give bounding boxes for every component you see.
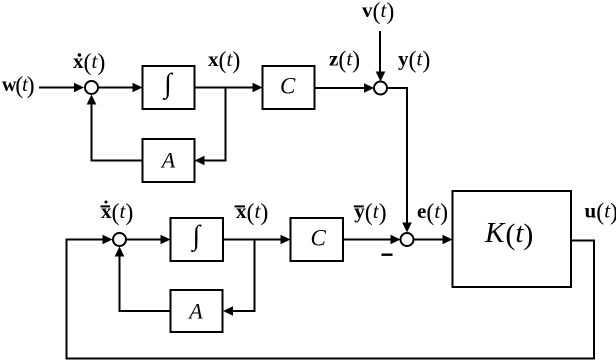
- letter A bottom: [187, 299, 203, 324]
- svg-text:v(t): v(t): [362, 0, 394, 25]
- wire summing junction 3 to integrator bottom: [126, 235, 171, 245]
- integral symbol top: [162, 69, 174, 101]
- minus sign at summing junction 4: [382, 254, 393, 256]
- wire C bottom to summing junction 4: [343, 235, 401, 245]
- C block top: [263, 66, 315, 109]
- summing junction 1: [85, 81, 98, 94]
- integrator block top: [143, 66, 195, 109]
- label xbar(t): [235, 199, 269, 226]
- svg-text:C: C: [280, 74, 296, 99]
- label K(t): [484, 217, 533, 251]
- svg-text:A: A: [187, 299, 203, 324]
- label x(t): [208, 47, 240, 74]
- wire summing junction 2 to summing junction 4 (y(t) path): [387, 88, 412, 233]
- letter C bottom: [311, 226, 327, 251]
- label u(t): [585, 199, 616, 226]
- svg-text:K(t): K(t): [484, 217, 533, 251]
- svg-text:u(t): u(t): [585, 199, 616, 226]
- integrator block bottom: [171, 218, 224, 261]
- letter A top: [160, 148, 176, 173]
- wire branch xbar(t) down to A bottom: [223, 240, 255, 316]
- svg-text:x(t): x(t): [73, 49, 105, 76]
- C block bottom: [291, 218, 344, 261]
- summing junction 2: [374, 82, 387, 95]
- wire summing junction 4 to K(t): [414, 235, 453, 245]
- label v(t): [362, 0, 394, 25]
- wire integrator bottom to C bottom: [223, 235, 291, 245]
- A block top: [143, 139, 195, 182]
- label y(t): [398, 47, 430, 74]
- label e(t): [417, 199, 448, 226]
- svg-text:y(t): y(t): [398, 47, 430, 74]
- label ybar(t): [354, 199, 387, 226]
- svg-text:y(t): y(t): [354, 199, 386, 226]
- label z(t): [329, 47, 360, 74]
- wire K(t) output u(t) feedback loop: [67, 235, 595, 359]
- integral symbol bottom: [190, 221, 202, 253]
- svg-text:z(t): z(t): [329, 47, 360, 74]
- K(t) block: [453, 191, 572, 287]
- wire branch x(t) down to A top: [195, 88, 226, 166]
- svg-text:e(t): e(t): [417, 199, 448, 226]
- wire C top to summing junction 2: [315, 83, 375, 93]
- summing junction 3: [113, 233, 126, 246]
- wire A bottom to summing junction 3: [115, 247, 171, 312]
- wire A top to summing junction 1: [87, 95, 143, 161]
- wire summing junction 1 to integrator top: [98, 83, 143, 93]
- label xbardot(t): [101, 199, 134, 226]
- wire v(t) input down: [376, 31, 386, 82]
- summing junction 4: [401, 233, 414, 246]
- svg-text:x(t): x(t): [208, 47, 240, 74]
- label xdot(t): [73, 49, 105, 76]
- label w(t): [2, 72, 34, 99]
- A block bottom: [171, 290, 223, 332]
- letter C top: [280, 74, 296, 99]
- svg-text:A: A: [160, 148, 176, 173]
- svg-text:x(t): x(t): [236, 199, 268, 226]
- wire integrator top to C top: [195, 83, 263, 93]
- wire w(t) input: [39, 83, 84, 93]
- svg-text:w(t): w(t): [2, 72, 34, 99]
- svg-text:C: C: [311, 226, 327, 251]
